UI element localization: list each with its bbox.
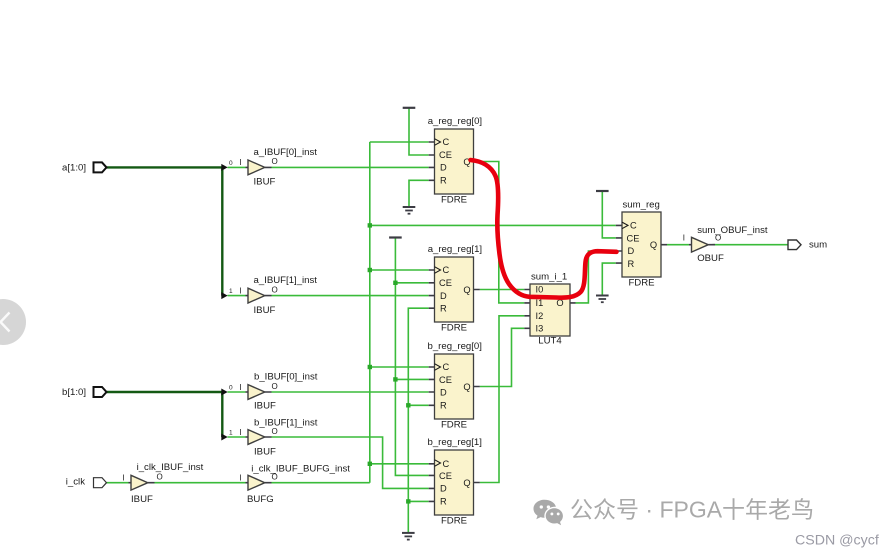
wire a_reg_reg[0] Q to LUT I1 [480,162,525,303]
buffer a_IBUF[0]_inst [239,147,317,188]
svg-text:b_IBUF[0]_inst: b_IBUF[0]_inst [254,372,318,383]
flip-flop b_reg_reg[1] FDRE [428,437,482,526]
buffer a_IBUF[1]_inst [239,275,317,316]
svg-text:O: O [272,285,278,294]
wire a_reg_reg[1] Q to LUT I0 [480,289,525,291]
svg-text:FDRE: FDRE [441,419,467,430]
svg-text:sum_OBUF_inst: sum_OBUF_inst [697,225,768,236]
node b bus split bit1 arrow [221,430,233,441]
svg-text:Q: Q [463,382,470,392]
ground R rail [402,533,415,540]
port i_clk [66,477,107,488]
flip-flop a_reg_reg[1] FDRE [428,244,482,333]
port a[1:0] [62,162,107,173]
svg-text:a_reg_reg[0]: a_reg_reg[0] [428,116,482,127]
wire a_IBUF[1] out to D [272,295,429,297]
svg-text:R: R [440,401,447,411]
flip-flop sum_reg FDRE [616,200,667,289]
junction CE b_reg_reg[0] [393,377,397,381]
svg-text:O: O [272,157,278,166]
svg-text:sum: sum [809,240,827,251]
svg-text:R: R [440,176,447,186]
svg-text:FDRE: FDRE [441,194,467,205]
wire i_clk port to IBUF [107,482,129,484]
svg-text:1: 1 [229,288,233,295]
junction clock a_reg_reg[1] [368,268,372,272]
svg-text:I1: I1 [536,298,544,308]
svg-text:Q: Q [463,285,470,295]
svg-text:IBUF: IBUF [254,446,276,457]
svg-text:IBUF: IBUF [254,400,276,411]
svg-text:CE: CE [627,234,640,244]
svg-text:C: C [630,221,637,231]
left nav circle chevron [0,299,26,345]
svg-text:O: O [157,473,163,482]
wire R branch b_reg_reg[0] [408,404,428,406]
svg-text:C: C [443,362,450,372]
watermark wechat icon [534,500,565,525]
wire CE branch b_reg_reg[0] [395,378,428,380]
ground a_reg_reg[0] R [403,207,416,214]
svg-text:b_reg_reg[0]: b_reg_reg[0] [428,341,482,352]
wire clock net BUFG to rail [272,482,370,484]
wire clock branch a_reg_reg[0] C [370,141,429,143]
svg-text:R: R [440,497,447,507]
svg-text:Q: Q [650,240,657,250]
wire sum VCC to CE [602,191,616,238]
svg-text:FDRE: FDRE [441,322,467,333]
wire CE branch a_reg_reg[1] [395,282,428,284]
svg-text:LUT4: LUT4 [538,335,562,346]
svg-text:D: D [440,163,447,173]
svg-text:a_IBUF[1]_inst: a_IBUF[1]_inst [254,275,318,286]
buffer i_clk_IBUF_BUFG_inst [239,464,350,505]
node a bus split bit1 arrow [221,288,233,299]
svg-text:R: R [440,304,447,314]
svg-text:0: 0 [229,160,233,167]
buffer b_IBUF[1]_inst [239,417,318,457]
wire GND rail R (a1,b0,b1) [408,308,428,533]
svg-text:i_clk_IBUF_inst: i_clk_IBUF_inst [137,462,204,473]
svg-text:I0: I0 [536,285,544,295]
svg-text:FDRE: FDRE [628,277,654,288]
buffer i_clk_IBUF_inst [122,462,203,505]
wire a_IBUF[0] out to D [272,166,429,168]
svg-text:I: I [239,158,241,167]
ground sum_reg R [596,296,609,303]
wire b bit1 to IBUF [228,436,246,438]
wire a bit1 to IBUF [228,295,246,297]
svg-text:I: I [239,474,241,483]
svg-text:O: O [272,382,278,391]
svg-text:C: C [443,265,450,275]
svg-text:CE: CE [439,471,452,481]
svg-text:IBUF: IBUF [254,305,276,316]
svg-text:a[1:0]: a[1:0] [62,162,86,173]
wire clock branch a_reg_reg[1] C [370,269,429,271]
wire b_reg_reg[0] Q to LUT I3 [480,328,525,386]
junction clock b_reg_reg[0] [368,365,372,369]
wire sum_reg Q to OBUF [667,244,689,246]
svg-text:b_reg_reg[1]: b_reg_reg[1] [428,437,482,448]
svg-text:CE: CE [439,278,452,288]
vcc CE rail [389,236,402,238]
wire b bus trunk [107,392,223,437]
wire OBUF out to port sum [713,244,789,246]
wire b_reg_reg[1] Q to LUT I2 [480,316,525,483]
svg-text:a_IBUF[0]_inst: a_IBUF[0]_inst [254,147,318,158]
wire a bus trunk [107,167,223,295]
svg-text:公众号 · FPGA十年老鸟: 公众号 · FPGA十年老鸟 [570,497,814,523]
junction clock sum_reg [368,223,372,227]
wire clock branch sum_reg C [370,224,616,226]
lut sum_i_1 LUT4 [524,272,575,347]
svg-text:IBUF: IBUF [254,177,276,188]
buffer b_IBUF[0]_inst [239,372,318,412]
svg-text:b_IBUF[1]_inst: b_IBUF[1]_inst [254,417,318,428]
svg-text:C: C [443,137,450,147]
svg-text:FDRE: FDRE [441,515,467,526]
wire LUT O to sum_reg D [576,251,616,303]
svg-text:I: I [239,286,241,295]
svg-text:I: I [239,383,241,392]
wire b bit0 to IBUF [228,391,246,393]
wire clock rail vertical [369,142,371,483]
flip-flop b_reg_reg[0] FDRE [428,341,482,430]
wire VCC rail CE (a1,b0,b1) [395,238,428,476]
port b[1:0] [62,387,107,398]
svg-text:D: D [440,484,447,494]
svg-text:sum_i_1: sum_i_1 [531,272,567,283]
svg-text:i_clk: i_clk [66,477,85,488]
svg-text:b[1:0]: b[1:0] [62,387,86,398]
node b bus split bit0 arrow [221,385,233,396]
wire clock branch b_reg_reg[0] C [370,366,429,368]
junction R b_reg_reg[1] [406,499,410,503]
svg-text:I: I [122,474,124,483]
svg-text:I3: I3 [536,323,544,333]
wire b_IBUF[1] out to D [272,437,429,488]
svg-text:D: D [628,246,635,256]
junction CE a_reg_reg[1] [393,281,397,285]
wire a bit0 to IBUF [228,166,246,168]
wire a0 VCC to CE [409,108,429,155]
svg-text:CSDN @cycf: CSDN @cycf [795,533,879,549]
svg-text:IBUF: IBUF [131,494,153,505]
red annotation a_reg_reg[0]/Q through LUT4 to sum_reg/D [471,160,617,298]
wire i_clk IBUF to BUFG [155,482,246,484]
wire a0 R to GND [409,180,429,207]
wire b_IBUF[0] out to D [272,391,429,393]
svg-text:I2: I2 [536,311,544,321]
svg-text:i_clk_IBUF_BUFG_inst: i_clk_IBUF_BUFG_inst [251,464,350,475]
svg-text:Q: Q [463,478,470,488]
svg-text:I: I [239,428,241,437]
svg-text:C: C [443,459,450,469]
vcc a_reg_reg[0] CE [403,107,416,109]
svg-text:BUFG: BUFG [247,494,274,505]
svg-text:D: D [440,388,447,398]
svg-text:sum_reg: sum_reg [623,200,660,211]
svg-text:OBUF: OBUF [697,253,724,264]
junction R b_reg_reg[0] [406,403,410,407]
svg-text:R: R [628,259,635,269]
wire R branch b_reg_reg[1] [408,500,428,502]
svg-text:0: 0 [229,385,233,392]
svg-text:I: I [683,234,685,243]
svg-text:CE: CE [439,375,452,385]
wire clock branch b_reg_reg[1] C [370,463,429,465]
junction clock b_reg_reg[1] [368,462,372,466]
vcc sum_reg CE [596,190,609,192]
svg-text:1: 1 [229,430,233,437]
flip-flop a_reg_reg[0] FDRE [428,116,482,205]
port sum [788,240,827,251]
buffer sum_OBUF_inst [683,225,768,264]
svg-text:D: D [440,291,447,301]
svg-text:a_reg_reg[1]: a_reg_reg[1] [428,244,482,255]
node a bus split bit0 arrow [221,160,233,171]
svg-text:CE: CE [439,150,452,160]
wire sum R to GND [602,263,616,295]
